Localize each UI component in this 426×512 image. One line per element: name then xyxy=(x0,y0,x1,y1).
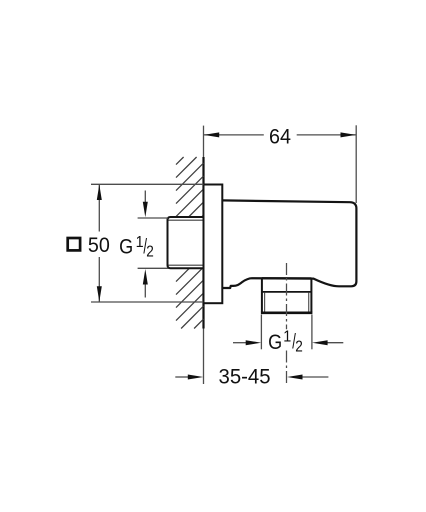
wall surface extension line below (for dim 35-45) xyxy=(203,329,205,385)
top extension line xyxy=(91,183,204,185)
dimension 35-45 wall to outlet center xyxy=(175,376,328,378)
arrow up of 50 xyxy=(97,185,102,201)
arrow right of 64 xyxy=(341,132,357,137)
body bottom line across nipple top xyxy=(262,277,312,279)
arrow down to inlet top xyxy=(143,202,148,218)
left extension line xyxy=(260,315,262,350)
svg-text:G: G xyxy=(119,235,133,259)
wall flange / escutcheon plate side view xyxy=(204,185,223,304)
wall surface extension line above (for dim 64) xyxy=(203,126,205,157)
bottom extension line xyxy=(91,301,203,303)
right tail xyxy=(327,342,343,344)
arrow to centerline xyxy=(287,375,303,380)
bottom extension line xyxy=(138,267,168,269)
dimension 64 top width xyxy=(204,125,357,203)
arrow down of 50 xyxy=(97,286,102,302)
right tail xyxy=(302,376,328,378)
bottom arrow leader xyxy=(144,280,146,298)
body of wall union (side profile) xyxy=(222,200,356,288)
wall edge thick section line xyxy=(202,157,204,329)
svg-text:64: 64 xyxy=(269,126,291,149)
outlet G1/2 dimension below nipple xyxy=(233,315,343,350)
arrow up to inlet bottom xyxy=(143,269,148,285)
right extension line xyxy=(355,125,357,203)
outlet nipple G1/2 pointing down xyxy=(261,278,313,313)
wall hatching xyxy=(176,157,204,329)
svg-text:50: 50 xyxy=(88,234,110,257)
svg-text:35-45: 35-45 xyxy=(219,365,271,388)
svg-text:2: 2 xyxy=(146,243,154,260)
centerline of outlet dash-dot lower part xyxy=(286,351,288,384)
right extension line xyxy=(311,315,313,350)
dim line right segment xyxy=(297,134,357,136)
dim line upper segment xyxy=(98,184,100,231)
svg-text:1: 1 xyxy=(136,233,144,251)
arrow left of 64 xyxy=(204,132,220,137)
svg-text:2: 2 xyxy=(295,339,303,356)
dim line lower segment xyxy=(98,257,100,302)
arrow to wall line xyxy=(188,375,204,380)
dimension square 50 flange size xyxy=(91,184,204,302)
top extension line xyxy=(138,217,168,219)
arrow to right ext line xyxy=(312,340,328,345)
svg-text:G: G xyxy=(268,330,282,354)
left tail xyxy=(175,376,189,378)
dim line left segment xyxy=(204,134,264,136)
arrow to left ext line xyxy=(246,340,262,345)
left tail xyxy=(233,342,246,344)
inlet thread nipple G1/2 behind wall xyxy=(168,217,204,268)
centerline of outlet dash-dot upper part xyxy=(286,263,288,329)
svg-text:1: 1 xyxy=(283,328,291,346)
square symbol for 50 xyxy=(68,238,80,250)
inlet G1/2 dimension at flange xyxy=(138,191,168,298)
top arrow leader xyxy=(144,191,146,207)
